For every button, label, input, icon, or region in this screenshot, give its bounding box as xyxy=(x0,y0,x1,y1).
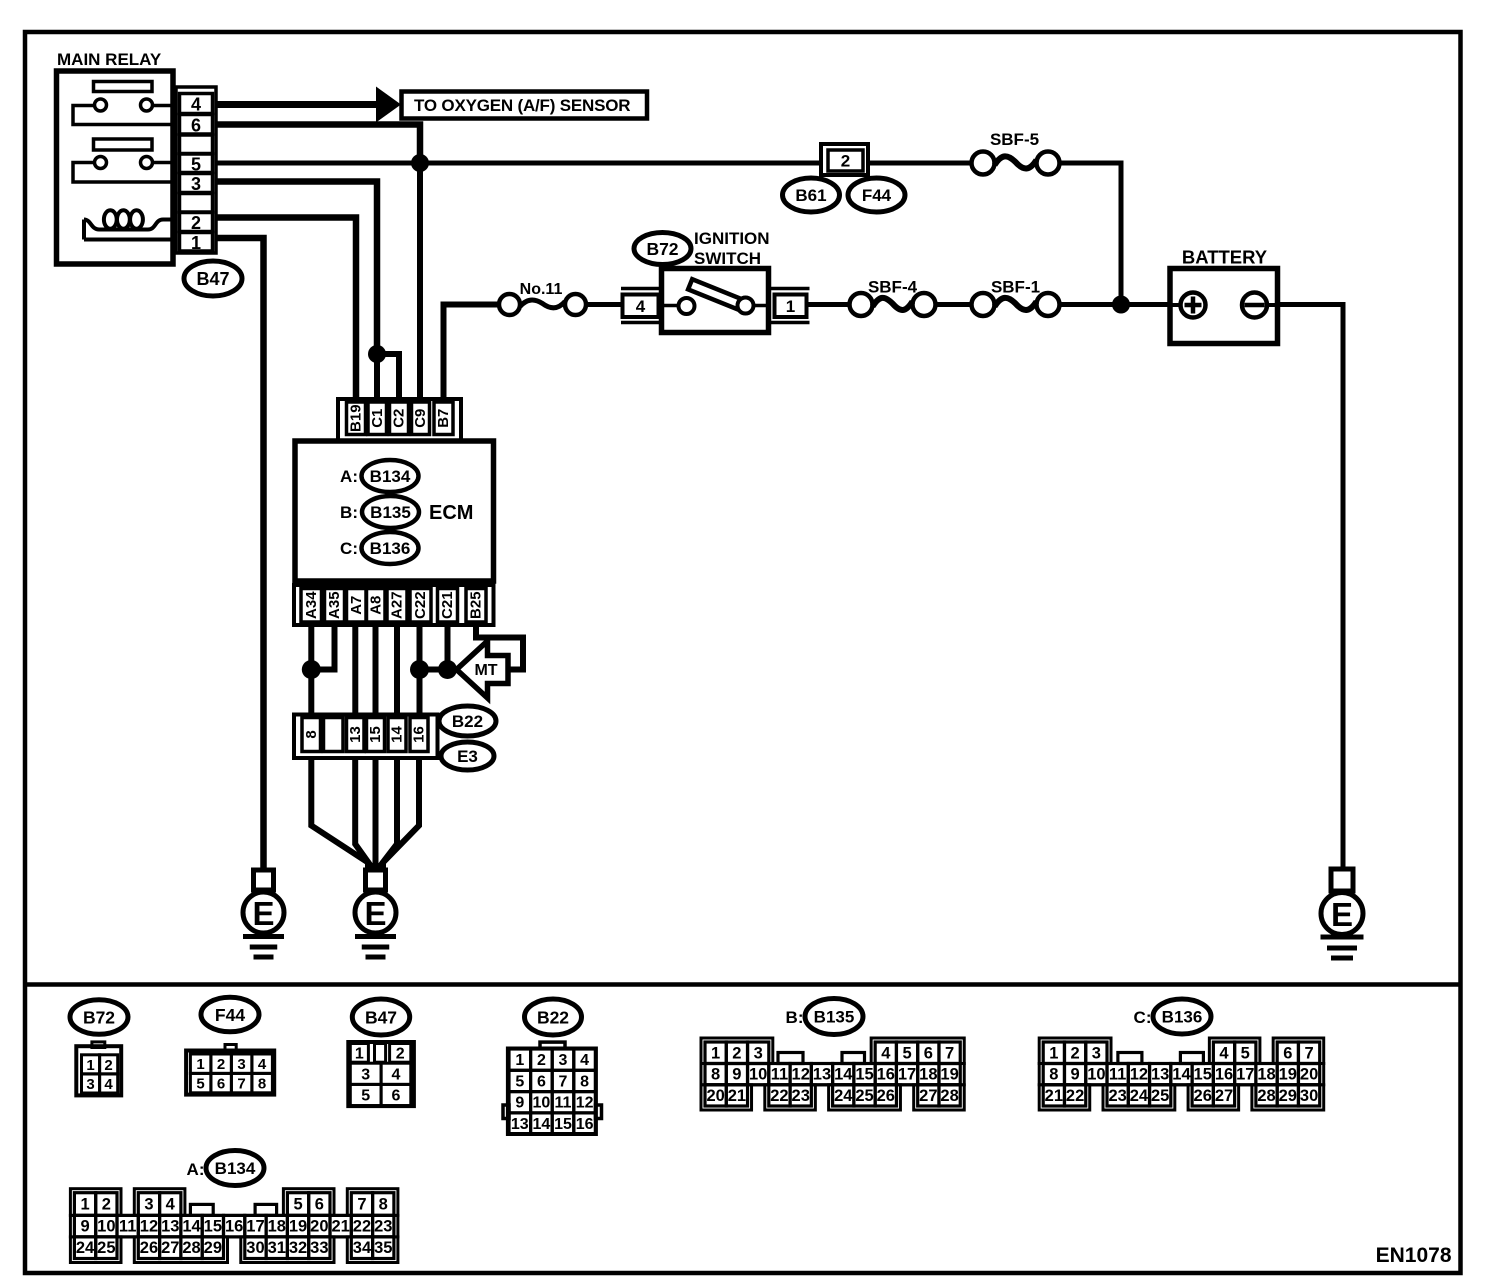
svg-text:7: 7 xyxy=(559,1073,568,1090)
svg-text:21: 21 xyxy=(728,1087,746,1105)
svg-text:28: 28 xyxy=(182,1239,200,1257)
connector B22 pinout xyxy=(503,1042,602,1134)
svg-text:10: 10 xyxy=(97,1218,115,1236)
connector B22/E3 pin 16 xyxy=(410,718,428,752)
junction node C22 xyxy=(410,660,429,679)
svg-text:12: 12 xyxy=(792,1066,810,1084)
svg-text:27: 27 xyxy=(919,1087,937,1105)
wire node to ECM C1 xyxy=(374,354,380,403)
svg-text:11: 11 xyxy=(555,1095,572,1112)
fuse No.11 label xyxy=(520,281,563,298)
ECM pin A7 xyxy=(347,589,367,623)
wire A34 to pin 8 xyxy=(308,625,314,715)
op ECM box xyxy=(295,441,494,581)
relay contact 2 bar xyxy=(94,139,153,150)
svg-text:1: 1 xyxy=(80,1196,89,1214)
svg-text:24: 24 xyxy=(834,1087,853,1105)
svg-text:A:: A: xyxy=(187,1160,205,1179)
wire relay contact1 left to pin 6 xyxy=(73,106,173,125)
svg-text:13: 13 xyxy=(511,1116,529,1133)
ECM connector C label xyxy=(340,539,358,558)
svg-text:B136: B136 xyxy=(1162,1008,1203,1027)
svg-text:B134: B134 xyxy=(215,1159,256,1178)
svg-text:5: 5 xyxy=(1241,1044,1250,1062)
fuse box 2 (B61/F44) xyxy=(821,144,868,175)
ignition switch contacts xyxy=(679,298,754,315)
connector B47 pin 6 xyxy=(180,115,213,136)
svg-text:A7: A7 xyxy=(348,596,365,615)
svg-text:13: 13 xyxy=(161,1218,179,1236)
ECM top connector frame xyxy=(338,399,461,441)
connector B22/E3 pin blank xyxy=(324,718,344,752)
connector B47 pin 5 xyxy=(180,154,213,174)
svg-text:24: 24 xyxy=(76,1239,95,1257)
ECM pin A8 xyxy=(367,589,386,623)
svg-text:26: 26 xyxy=(1194,1087,1212,1105)
svg-text:C22: C22 xyxy=(412,591,429,619)
connector A:B134 pin grid xyxy=(70,1189,398,1263)
wire relay contact2 right to pin 5 xyxy=(152,161,174,165)
svg-text:6: 6 xyxy=(315,1196,324,1214)
svg-text:23: 23 xyxy=(792,1087,810,1105)
svg-text:33: 33 xyxy=(310,1239,328,1257)
ground E (left) xyxy=(243,870,284,957)
svg-text:17: 17 xyxy=(898,1066,916,1084)
ECM bottom connector frame xyxy=(294,585,494,625)
svg-text:27: 27 xyxy=(1215,1087,1233,1105)
svg-text:3: 3 xyxy=(1092,1044,1101,1062)
svg-text:6: 6 xyxy=(392,1088,401,1105)
svg-text:TO OXYGEN (A/F) SENSOR: TO OXYGEN (A/F) SENSOR xyxy=(414,96,630,115)
relay contact 2 terminals xyxy=(95,157,153,169)
battery xyxy=(1170,269,1278,344)
ECM connector B label xyxy=(340,503,358,522)
svg-text:C1: C1 xyxy=(369,409,386,428)
svg-text:4: 4 xyxy=(166,1196,176,1214)
svg-text:B61: B61 xyxy=(795,186,826,205)
wire SBF-5 to battery junction xyxy=(1058,163,1121,305)
svg-text:4: 4 xyxy=(1219,1044,1229,1062)
wire pin 14 to ground xyxy=(381,758,398,871)
svg-text:E3: E3 xyxy=(457,747,478,766)
svg-text:B7: B7 xyxy=(435,409,452,428)
wire relay pin 1 to ground xyxy=(216,238,264,870)
svg-text:21: 21 xyxy=(1045,1087,1063,1105)
wire relay contact2 left to pin 3 xyxy=(73,163,173,183)
svg-text:B72: B72 xyxy=(83,1008,115,1028)
connector B22/E3 pin 15 xyxy=(367,718,385,752)
wire node C22 to node C21 xyxy=(420,667,448,673)
svg-text:12: 12 xyxy=(1130,1066,1148,1084)
ECM pin C21 xyxy=(438,589,458,623)
svg-text:4: 4 xyxy=(258,1056,267,1073)
connector B:B135 pin grid xyxy=(701,1038,964,1110)
svg-text:E: E xyxy=(1331,896,1353,933)
connector C:B136 label xyxy=(1134,1008,1152,1027)
svg-text:6: 6 xyxy=(924,1044,933,1062)
svg-text:7: 7 xyxy=(945,1044,954,1062)
svg-text:B:: B: xyxy=(786,1008,804,1027)
arrow to oxygen sensor xyxy=(376,87,401,123)
fuse SBF-5 xyxy=(972,152,1060,175)
connector C:B136 pin grid xyxy=(1039,1038,1324,1110)
svg-text:C:: C: xyxy=(1134,1008,1152,1027)
svg-text:5: 5 xyxy=(196,1076,204,1093)
svg-text:29: 29 xyxy=(204,1239,222,1257)
svg-text:8: 8 xyxy=(1049,1066,1058,1084)
svg-text:7: 7 xyxy=(1304,1044,1313,1062)
oval label B135 (ECM B) xyxy=(362,496,419,528)
oval label B47 (pinout) xyxy=(352,999,409,1035)
svg-text:4: 4 xyxy=(392,1066,401,1083)
wire relay coil to pin 1 xyxy=(84,238,173,242)
connector B47 pin blank xyxy=(180,194,213,213)
wire pin 16 to ground xyxy=(383,758,419,871)
svg-text:B47: B47 xyxy=(365,1008,397,1028)
svg-text:20: 20 xyxy=(310,1218,328,1236)
svg-text:13: 13 xyxy=(813,1066,831,1084)
svg-text:23: 23 xyxy=(1108,1087,1126,1105)
svg-text:34: 34 xyxy=(353,1239,372,1257)
wire A7 to pin 13 xyxy=(352,625,358,715)
oval label E3 xyxy=(441,742,494,770)
oval label B22 xyxy=(439,706,496,736)
oval label B134 (pinout) xyxy=(206,1151,264,1186)
oval label B72 (ignition switch) xyxy=(634,233,691,265)
wire No.11 to ignition switch xyxy=(586,302,623,307)
fuse SBF-4 label xyxy=(868,278,918,297)
svg-text:A34: A34 xyxy=(303,591,320,619)
svg-text:9: 9 xyxy=(1071,1066,1080,1084)
svg-text:12: 12 xyxy=(576,1095,594,1112)
ECM pin A35 xyxy=(325,589,345,623)
wire SBF-1 to battery xyxy=(1058,302,1170,307)
svg-text:22: 22 xyxy=(353,1218,371,1236)
wire battery negative to ground xyxy=(1278,305,1344,870)
svg-text:10: 10 xyxy=(749,1066,767,1084)
wire pin 13 to ground xyxy=(355,758,370,871)
svg-text:C:: C: xyxy=(340,539,358,558)
svg-text:16: 16 xyxy=(877,1066,895,1084)
diagram id EN1078 xyxy=(1376,1244,1452,1267)
oval label B134 (ECM A) xyxy=(362,460,419,492)
main relay label xyxy=(57,50,162,69)
svg-text:2: 2 xyxy=(191,213,201,233)
ECM pin A27 xyxy=(387,589,407,623)
svg-text:3: 3 xyxy=(144,1196,153,1214)
svg-text:8: 8 xyxy=(711,1066,720,1084)
svg-text:1: 1 xyxy=(515,1052,524,1069)
relay contact 1 bar xyxy=(94,82,153,92)
svg-text:B72: B72 xyxy=(646,239,678,259)
svg-text:9: 9 xyxy=(515,1095,524,1112)
svg-text:11: 11 xyxy=(771,1066,788,1084)
svg-text:25: 25 xyxy=(1151,1087,1169,1105)
connector B:B135 label xyxy=(786,1008,804,1027)
svg-text:B19: B19 xyxy=(348,404,365,432)
svg-text:13: 13 xyxy=(1151,1066,1169,1084)
relay coil xyxy=(84,210,173,239)
ignition switch pin 1 box xyxy=(769,289,810,323)
connector F44 pinout xyxy=(186,1045,274,1095)
ignition switch label xyxy=(694,229,770,268)
svg-text:18: 18 xyxy=(268,1218,286,1236)
junction node pin5/pin6 xyxy=(411,154,429,172)
svg-text:B22: B22 xyxy=(452,712,483,731)
svg-text:17: 17 xyxy=(1236,1066,1254,1084)
svg-text:8: 8 xyxy=(303,730,320,738)
ECM name text xyxy=(429,502,473,524)
svg-text:10: 10 xyxy=(1087,1066,1105,1084)
wire node to ECM C2 xyxy=(377,354,399,403)
ignition switch lever xyxy=(688,279,746,311)
svg-text:C9: C9 xyxy=(412,409,429,428)
svg-text:A35: A35 xyxy=(326,591,343,619)
svg-text:19: 19 xyxy=(940,1066,958,1084)
svg-text:15: 15 xyxy=(367,726,384,743)
svg-text:4: 4 xyxy=(881,1044,891,1062)
svg-text:6: 6 xyxy=(1283,1044,1292,1062)
svg-text:1: 1 xyxy=(196,1056,204,1073)
svg-text:31: 31 xyxy=(268,1239,286,1257)
panel divider line xyxy=(25,982,1461,987)
svg-text:13: 13 xyxy=(347,726,364,743)
oval label B22 (pinout) xyxy=(525,999,582,1035)
svg-text:SBF-4: SBF-4 xyxy=(868,278,918,297)
svg-text:F44: F44 xyxy=(862,186,892,205)
svg-text:15: 15 xyxy=(554,1116,572,1133)
svg-text:26: 26 xyxy=(140,1239,158,1257)
svg-text:4: 4 xyxy=(636,297,646,316)
svg-text:F44: F44 xyxy=(215,1005,245,1025)
connector B47 pinout xyxy=(348,1042,414,1106)
connector B22/E3 pin 8 xyxy=(302,718,321,752)
svg-text:4: 4 xyxy=(580,1052,589,1069)
ECM pin C9 xyxy=(412,402,430,435)
svg-text:35: 35 xyxy=(374,1239,392,1257)
svg-text:22: 22 xyxy=(1066,1087,1084,1105)
svg-text:15: 15 xyxy=(204,1218,222,1236)
main relay box xyxy=(57,71,174,264)
connector B72 pinout xyxy=(76,1042,121,1095)
svg-text:20: 20 xyxy=(706,1087,724,1105)
svg-text:B135: B135 xyxy=(814,1008,855,1027)
ECM pin C22 xyxy=(410,589,431,623)
battery label xyxy=(1182,247,1268,268)
svg-text:ECM: ECM xyxy=(429,502,473,524)
svg-text:SBF-5: SBF-5 xyxy=(990,130,1039,149)
connector B22/E3 pin 14 xyxy=(388,718,406,752)
svg-text:2: 2 xyxy=(732,1044,741,1062)
svg-text:28: 28 xyxy=(940,1087,958,1105)
oval label F44 xyxy=(848,178,905,212)
svg-text:5: 5 xyxy=(902,1044,911,1062)
svg-text:B136: B136 xyxy=(370,539,411,558)
svg-text:1: 1 xyxy=(355,1045,364,1062)
svg-text:2: 2 xyxy=(102,1196,111,1214)
svg-text:14: 14 xyxy=(834,1066,853,1084)
svg-text:26: 26 xyxy=(877,1087,895,1105)
junction node pin3 branch xyxy=(368,345,386,363)
svg-text:3: 3 xyxy=(237,1056,245,1073)
svg-text:5: 5 xyxy=(361,1088,370,1105)
label TO OXYGEN (A/F) SENSOR xyxy=(402,92,648,119)
svg-text:29: 29 xyxy=(1279,1087,1297,1105)
svg-text:25: 25 xyxy=(855,1087,873,1105)
oval label F44 (pinout) xyxy=(201,997,259,1032)
wire relay pin 4 to oxygen sensor xyxy=(216,101,378,108)
svg-text:1: 1 xyxy=(711,1044,720,1062)
wire C21 to node xyxy=(445,625,451,670)
connector B47 pin 3 xyxy=(180,174,213,195)
fuse SBF-1 xyxy=(972,293,1060,316)
svg-text:16: 16 xyxy=(1215,1066,1233,1084)
ECM connector A label xyxy=(340,467,358,486)
relay contact 1 terminals xyxy=(95,99,153,111)
oval label B135 (pinout) xyxy=(805,999,863,1035)
ground E (center) xyxy=(355,870,396,957)
svg-text:2: 2 xyxy=(104,1057,112,1074)
svg-text:IGNITION: IGNITION xyxy=(694,229,770,248)
svg-text:6: 6 xyxy=(217,1076,225,1093)
oval label B47 xyxy=(184,261,242,296)
svg-text:5: 5 xyxy=(191,154,201,174)
svg-text:2: 2 xyxy=(396,1045,405,1062)
svg-text:1: 1 xyxy=(191,233,201,253)
svg-text:30: 30 xyxy=(1300,1087,1318,1105)
svg-text:B47: B47 xyxy=(196,269,229,289)
svg-text:E: E xyxy=(364,895,386,932)
svg-text:4: 4 xyxy=(104,1076,113,1093)
oval label B136 (ECM C) xyxy=(362,532,419,564)
wire A27 to pin 14 xyxy=(394,625,400,715)
svg-text:14: 14 xyxy=(533,1116,551,1133)
svg-text:3: 3 xyxy=(86,1076,94,1093)
ignition switch body xyxy=(662,269,769,333)
svg-text:8: 8 xyxy=(580,1073,589,1090)
svg-text:18: 18 xyxy=(919,1066,937,1084)
svg-text:9: 9 xyxy=(732,1066,741,1084)
ECM pin A34 xyxy=(301,589,322,623)
svg-text:32: 32 xyxy=(289,1239,307,1257)
svg-text:14: 14 xyxy=(1172,1066,1191,1084)
wire B25 to MT xyxy=(476,625,523,670)
ECM pin C1 xyxy=(368,402,387,435)
svg-text:No.11: No.11 xyxy=(520,281,563,298)
svg-text:22: 22 xyxy=(770,1087,788,1105)
wire node down to ECM C9 xyxy=(417,163,423,403)
wire switch to SBF-4 xyxy=(807,302,852,307)
svg-text:8: 8 xyxy=(379,1196,388,1214)
junction node C21 xyxy=(438,660,457,679)
svg-text:1: 1 xyxy=(786,297,795,316)
svg-text:B22: B22 xyxy=(537,1008,569,1028)
oval label B61 xyxy=(783,178,840,212)
svg-text:A27: A27 xyxy=(389,591,406,619)
svg-text:27: 27 xyxy=(161,1239,179,1257)
svg-text:7: 7 xyxy=(237,1076,245,1093)
svg-text:24: 24 xyxy=(1130,1087,1149,1105)
svg-text:16: 16 xyxy=(225,1218,243,1236)
svg-text:15: 15 xyxy=(1194,1066,1212,1084)
svg-text:2: 2 xyxy=(1071,1044,1080,1062)
oval label B136 (pinout) xyxy=(1153,999,1211,1034)
svg-text:14: 14 xyxy=(182,1218,201,1236)
wire A8 to pin 15 xyxy=(373,625,379,715)
wire SBF-4 to SBF-1 xyxy=(934,302,973,307)
svg-text:B134: B134 xyxy=(370,467,411,486)
svg-text:B:: B: xyxy=(340,503,358,522)
svg-text:4: 4 xyxy=(191,95,201,115)
svg-text:MT: MT xyxy=(474,662,497,679)
ECM pin B19 xyxy=(347,402,366,435)
ECM pin C2 xyxy=(390,402,409,435)
ECM pin B25 xyxy=(466,589,486,623)
svg-text:6: 6 xyxy=(191,115,201,135)
fuse SBF-4 xyxy=(850,293,936,316)
svg-text:20: 20 xyxy=(1300,1066,1318,1084)
svg-text:SWITCH: SWITCH xyxy=(694,249,761,268)
svg-text:B135: B135 xyxy=(370,503,411,522)
junction node battery xyxy=(1112,296,1130,314)
svg-text:9: 9 xyxy=(80,1218,89,1236)
svg-text:2: 2 xyxy=(537,1052,546,1069)
svg-text:B25: B25 xyxy=(468,591,485,619)
fuse No.11 xyxy=(499,294,586,315)
svg-text:18: 18 xyxy=(1257,1066,1275,1084)
wire relay pin 3 down xyxy=(216,182,377,355)
svg-text:23: 23 xyxy=(374,1218,392,1236)
wire pin 8 to ground xyxy=(311,758,368,871)
svg-text:3: 3 xyxy=(754,1044,763,1062)
svg-text:1: 1 xyxy=(86,1057,94,1074)
svg-text:10: 10 xyxy=(533,1095,551,1112)
svg-text:A8: A8 xyxy=(367,596,384,615)
fuse SBF-1 label xyxy=(991,278,1040,297)
svg-text:14: 14 xyxy=(389,726,406,743)
wire relay pin 6 to node xyxy=(216,125,420,164)
svg-text:E: E xyxy=(252,895,274,932)
svg-text:21: 21 xyxy=(331,1218,349,1236)
connector B47 pin 2 xyxy=(180,213,213,234)
svg-text:BATTERY: BATTERY xyxy=(1182,247,1268,268)
junction node A34/A35 xyxy=(302,660,321,679)
fuse SBF-5 label xyxy=(990,130,1039,149)
ECM pin B7 xyxy=(434,402,453,435)
wire A35 to node xyxy=(311,625,334,670)
svg-text:12: 12 xyxy=(140,1218,158,1236)
svg-text:19: 19 xyxy=(289,1218,307,1236)
svg-text:A:: A: xyxy=(340,467,358,486)
svg-text:5: 5 xyxy=(293,1196,302,1214)
wire box2 to SBF-5 xyxy=(868,161,973,166)
svg-text:11: 11 xyxy=(1109,1066,1126,1084)
svg-text:5: 5 xyxy=(515,1073,524,1090)
svg-text:28: 28 xyxy=(1257,1087,1275,1105)
svg-text:EN1078: EN1078 xyxy=(1376,1244,1452,1267)
connector B47 pin 4 xyxy=(180,94,213,115)
svg-text:25: 25 xyxy=(97,1239,115,1257)
svg-text:17: 17 xyxy=(246,1218,264,1236)
connector B47 pin blank xyxy=(180,135,213,154)
wire relay pin 2 to ECM B19 xyxy=(216,218,356,404)
wire ECM B7 up to No.11 xyxy=(444,305,500,404)
oval label B72 (pinout) xyxy=(70,1000,128,1035)
svg-text:15: 15 xyxy=(855,1066,873,1084)
wire C22 to pin 16 xyxy=(417,625,423,715)
connector A:B134 label xyxy=(187,1160,205,1179)
svg-text:C21: C21 xyxy=(439,591,456,619)
